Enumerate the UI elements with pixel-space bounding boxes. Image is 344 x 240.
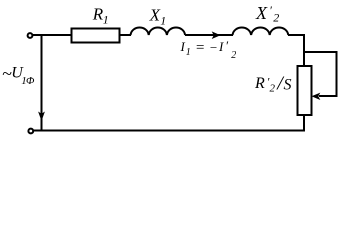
terminal top-left [28, 33, 33, 38]
resistor R'2/S [298, 66, 312, 115]
wire: bottom rail [33, 130, 305, 132]
inductor X'2 [233, 28, 289, 36]
wire: X'2 to right corner [288, 34, 305, 36]
wire: R'2/S bottom to bottom rail [303, 115, 305, 132]
wire: left vertical branch [41, 35, 43, 131]
label R'2/S [254, 73, 292, 95]
svg-text:1: 1 [186, 47, 191, 58]
svg-text:2: 2 [273, 11, 279, 25]
svg-text:Φ: Φ [26, 75, 35, 87]
svg-text:2: 2 [231, 50, 236, 61]
rheostat tap arrowhead [312, 93, 321, 100]
svg-text:2: 2 [270, 83, 276, 95]
svg-text:X: X [149, 5, 161, 24]
wire: right vertical down to R'2/S [303, 34, 305, 66]
label I1 = -I'2 [180, 38, 237, 61]
arrow down on left branch [38, 112, 45, 122]
svg-text:1: 1 [160, 14, 166, 28]
label ~U1phi [2, 64, 35, 88]
current arrow I1 [212, 31, 221, 39]
svg-text:R: R [254, 75, 265, 92]
wire: top terminal to resistor R1 [33, 34, 72, 36]
label X'2 [255, 3, 279, 25]
inductor X1 [131, 28, 186, 36]
resistor R1 [72, 29, 120, 43]
svg-text:S: S [284, 77, 292, 94]
svg-text:′: ′ [269, 3, 272, 17]
svg-text:I: I [180, 39, 186, 54]
terminal bottom-left [28, 129, 33, 134]
svg-text:′: ′ [225, 38, 228, 53]
svg-text:=: = [195, 40, 205, 56]
wire: X1 to X'2 [185, 34, 233, 36]
svg-text:−: − [209, 40, 218, 55]
svg-text:X: X [255, 3, 268, 23]
svg-text:1: 1 [103, 13, 109, 27]
label X1 [149, 5, 167, 27]
wire: rheostat tap branch [304, 52, 337, 96]
wire: R1 to X1 [120, 34, 132, 36]
label R1 [92, 5, 109, 27]
svg-text:I: I [218, 39, 224, 54]
